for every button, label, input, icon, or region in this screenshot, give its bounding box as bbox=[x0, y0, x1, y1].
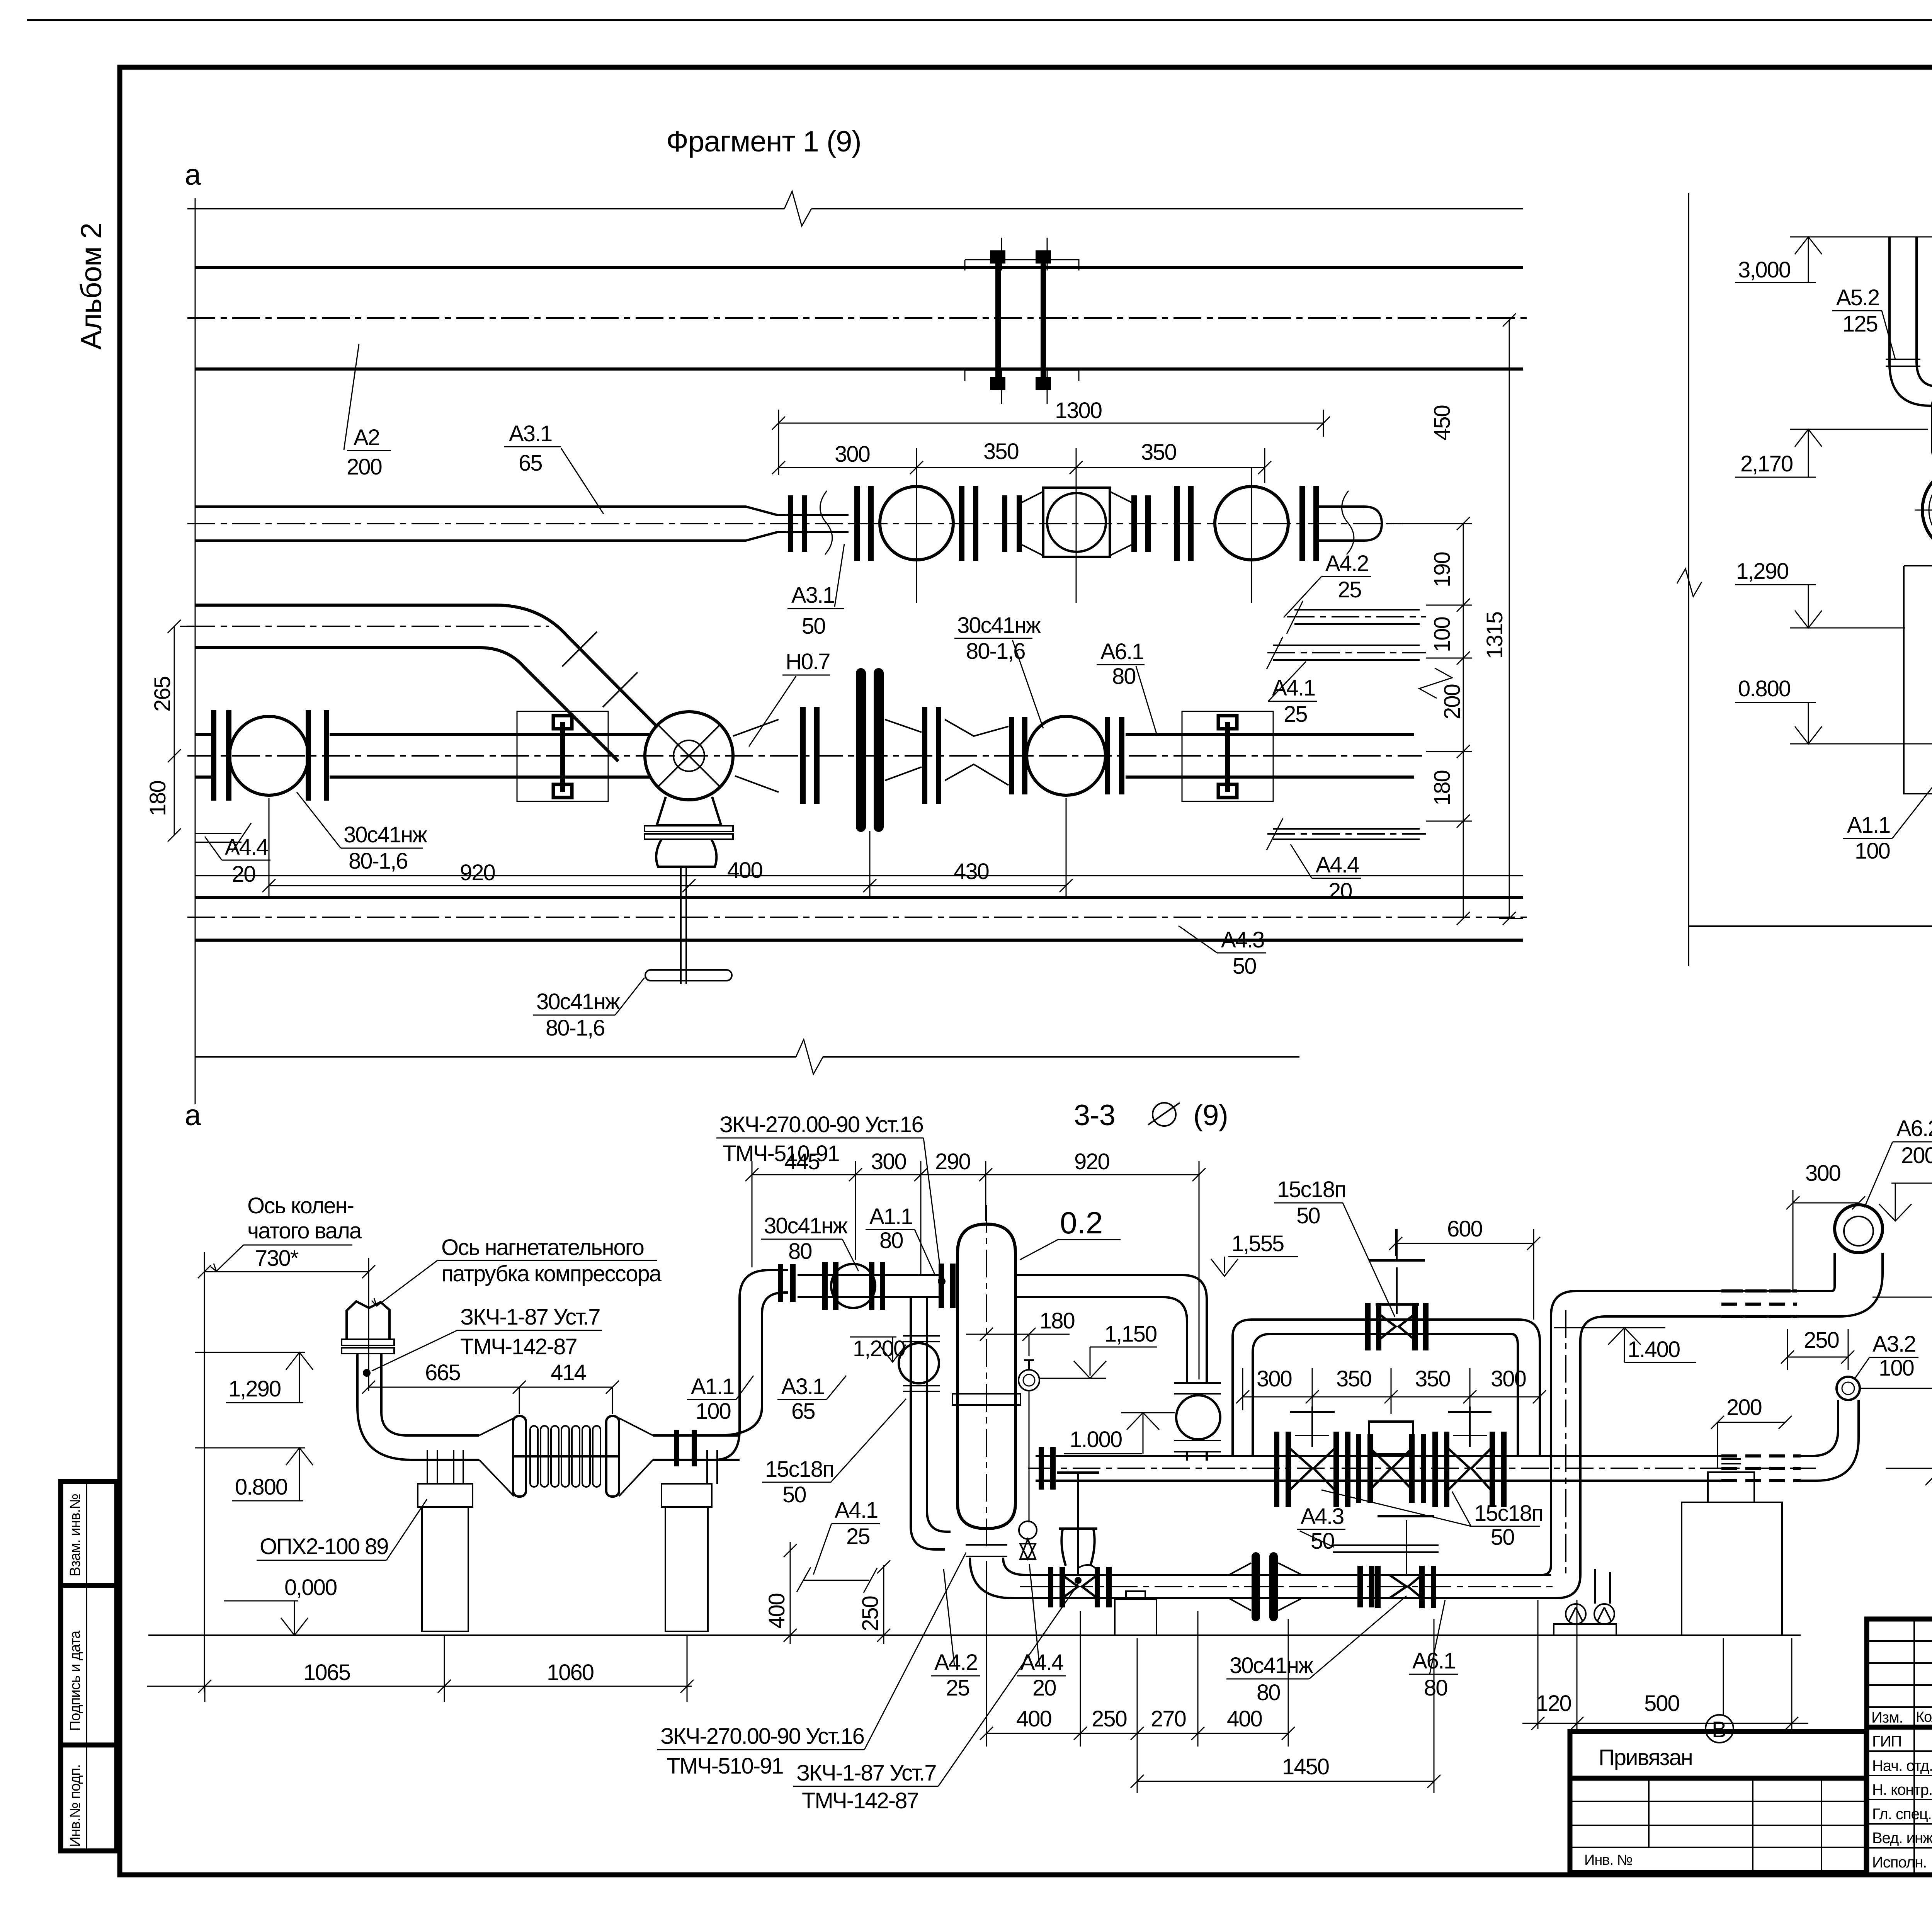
label A6.1/80 bbox=[1097, 639, 1157, 736]
bellows corrugations bbox=[530, 1426, 600, 1487]
flange pair 4 bbox=[1177, 486, 1191, 561]
label 30s41nzh/80 bottom v3 bbox=[1226, 1596, 1406, 1705]
loop right elbow down bbox=[1511, 1320, 1540, 1456]
label A1.1/100 bbox=[1843, 746, 1932, 864]
dashed hidden crossing top bbox=[1727, 1291, 1793, 1316]
svg-text:200: 200 bbox=[1440, 684, 1465, 719]
svg-text:500: 500 bbox=[1644, 1691, 1679, 1716]
pipe A1.1 feed centerline bbox=[187, 626, 549, 627]
svg-text:ТМЧ-510-91: ТМЧ-510-91 bbox=[667, 1753, 783, 1779]
view3 section symbol bbox=[1148, 1103, 1180, 1126]
svg-text:665: 665 bbox=[425, 1360, 460, 1385]
label A5.2/125 bbox=[1832, 285, 1895, 359]
pipe A4.4 right bbox=[1267, 818, 1426, 850]
pipe to support bbox=[429, 1435, 479, 1460]
flange pair small bbox=[1012, 717, 1025, 794]
svg-text:0,000: 0,000 bbox=[284, 1575, 337, 1600]
stub pipe left bbox=[195, 735, 211, 777]
svg-text:А4.2: А4.2 bbox=[1325, 551, 1368, 576]
dim 200 pedestal bbox=[1711, 1416, 1792, 1468]
cone bbox=[885, 719, 922, 781]
sheet top edge line bbox=[27, 19, 1932, 21]
svg-text:патрубка компрессора: патрубка компрессора bbox=[441, 1261, 662, 1286]
drain hook detail bbox=[1078, 1565, 1097, 1575]
gauge 2 with valve bbox=[1019, 1521, 1037, 1559]
svg-text:15с18п: 15с18п bbox=[1474, 1501, 1543, 1526]
svg-text:100: 100 bbox=[1879, 1355, 1914, 1381]
dim 1300 bbox=[772, 410, 1330, 475]
flange pair right of valve bbox=[308, 710, 327, 801]
svg-text:В: В bbox=[1712, 1717, 1726, 1742]
svg-text:Альбом 2: Альбом 2 bbox=[75, 223, 108, 350]
svg-text:А2: А2 bbox=[354, 425, 379, 450]
dim 665 414 bbox=[362, 1381, 619, 1414]
sidebar outer box bbox=[61, 1481, 117, 1851]
flange pair at vessel side bbox=[1041, 1447, 1053, 1490]
level 1,100 bbox=[1860, 1388, 1932, 1431]
cone to square valve bbox=[1022, 492, 1043, 556]
bottom bundle bottom wall bbox=[195, 939, 1523, 942]
riser with valve bbox=[1174, 1383, 1221, 1461]
svg-text:15с18п: 15с18п bbox=[765, 1457, 833, 1482]
valve bonnet bbox=[656, 839, 716, 867]
svg-text:0.800: 0.800 bbox=[235, 1475, 287, 1500]
dim 250 right bbox=[1781, 1329, 1854, 1370]
svg-text:А5.2: А5.2 bbox=[1836, 285, 1879, 310]
level 1,555 bbox=[1211, 1231, 1298, 1276]
A3.2 circle bbox=[1837, 1377, 1860, 1400]
A6.1 run bbox=[1028, 1575, 1551, 1598]
svg-text:265: 265 bbox=[150, 677, 175, 712]
flange pair left bbox=[214, 710, 229, 801]
ground line v3 bbox=[148, 1634, 1801, 1636]
svg-text:400: 400 bbox=[764, 1594, 789, 1629]
svg-text:А4.2: А4.2 bbox=[934, 1650, 977, 1675]
square valve circle bbox=[1047, 493, 1106, 552]
svg-text:80: 80 bbox=[879, 1228, 903, 1253]
svg-text:А4.1: А4.1 bbox=[835, 1498, 878, 1523]
svg-text:1,150: 1,150 bbox=[1104, 1321, 1156, 1347]
dim 265 bbox=[168, 620, 205, 842]
flange pair on A6.1 bbox=[1360, 1566, 1372, 1607]
loop top pipe bbox=[1252, 1320, 1519, 1334]
svg-text:А1.1: А1.1 bbox=[1847, 813, 1890, 838]
svg-text:ГИП: ГИП bbox=[1872, 1733, 1901, 1750]
privyazan grid rows bbox=[1570, 1801, 1866, 1825]
svg-text:А4.4: А4.4 bbox=[225, 835, 268, 860]
level 0,000 bbox=[224, 1575, 337, 1635]
header row line bbox=[1867, 1725, 1932, 1730]
label zkch-1-87 bottom bbox=[793, 1584, 1078, 1813]
svg-text:1,555: 1,555 bbox=[1231, 1231, 1284, 1256]
svg-text:А6.2: А6.2 bbox=[1896, 1116, 1932, 1141]
pipe A3.1 walls bbox=[195, 507, 849, 541]
tee ball joint bbox=[645, 712, 733, 800]
svg-text:А3.2: А3.2 bbox=[1872, 1332, 1915, 1357]
svg-text:0.2: 0.2 bbox=[1060, 1206, 1103, 1240]
svg-text:Вед. инж.: Вед. инж. bbox=[1872, 1830, 1932, 1847]
flange pair on pipe bbox=[677, 1430, 694, 1466]
flange pair bbox=[803, 707, 817, 804]
dim 300 350 350 bbox=[772, 448, 1271, 603]
valve stem bbox=[681, 867, 686, 984]
staff table verticals bbox=[1914, 1619, 1932, 1875]
level 1.800 bbox=[1879, 1165, 1932, 1221]
label A1.1/80 bbox=[866, 1204, 935, 1275]
label A4.3/50 bbox=[1179, 926, 1266, 979]
extension lines to 120 500 dim bbox=[1538, 1600, 1792, 1729]
bottom bundle thin bbox=[195, 875, 1523, 876]
dim 1450 bbox=[1131, 1619, 1440, 1793]
dim row 400 250 270 400 bbox=[980, 1561, 1295, 1793]
svg-text:1.000: 1.000 bbox=[1070, 1427, 1122, 1452]
privyazan bottom row line bbox=[1570, 1847, 1866, 1848]
nozzle flange slabs bbox=[342, 1339, 394, 1345]
svg-text:чатого вала: чатого вала bbox=[247, 1218, 362, 1243]
gauge 1 bbox=[1019, 1360, 1039, 1522]
svg-text:Привязан: Привязан bbox=[1599, 1745, 1692, 1770]
svg-text:350: 350 bbox=[1336, 1366, 1371, 1391]
regulator valve battery bbox=[1359, 1422, 1423, 1503]
svg-text:125: 125 bbox=[1842, 311, 1878, 337]
casing rect bbox=[1904, 566, 1932, 794]
label zkch-270 bottom bbox=[657, 1553, 966, 1779]
svg-text:Ось колен-: Ось колен- bbox=[247, 1193, 354, 1218]
right dim line 1315 bbox=[1499, 313, 1523, 925]
valve flanges bbox=[825, 1262, 883, 1310]
privyazan row1 divider bbox=[1570, 1776, 1866, 1781]
mid pipe centerline bbox=[1028, 1468, 1816, 1469]
lens compensator discs bbox=[861, 673, 879, 827]
main row centerline bbox=[187, 755, 1422, 757]
svg-text:430: 430 bbox=[954, 859, 989, 884]
svg-text:50: 50 bbox=[1491, 1525, 1514, 1550]
svg-text:100: 100 bbox=[1430, 617, 1455, 652]
svg-text:920: 920 bbox=[1074, 1149, 1109, 1174]
level 1,290 v3 bbox=[195, 1352, 313, 1403]
flange pair bbox=[1107, 717, 1122, 794]
svg-text:1300: 1300 bbox=[1055, 398, 1102, 423]
dim 300 top right bbox=[1786, 1190, 1865, 1293]
A6.1 elbow up to riser R2 bbox=[1528, 1565, 1580, 1598]
inlet flange pair to vessel bbox=[941, 1264, 953, 1308]
label OPH2-100 89 bbox=[257, 1499, 427, 1560]
svg-text:3,000: 3,000 bbox=[1738, 257, 1790, 282]
valve under tee flange slabs bbox=[645, 826, 733, 839]
svg-text:ТМЧ-142-87: ТМЧ-142-87 bbox=[802, 1788, 918, 1813]
level 1,290 view2 bbox=[1735, 559, 1905, 628]
level 1,200 bbox=[850, 1336, 906, 1362]
label 15s18p/50 top bbox=[1274, 1177, 1395, 1317]
sidebar mid divider bbox=[86, 1481, 87, 1851]
A6.1 centerline bbox=[1020, 1586, 1557, 1587]
level 0,745 bbox=[1886, 1468, 1932, 1512]
dim 920 400 430 bbox=[262, 798, 1073, 896]
label A4.2/25 bbox=[1284, 551, 1371, 617]
level 1,150 bbox=[1039, 1321, 1157, 1378]
svg-text:20: 20 bbox=[232, 862, 255, 887]
dim 730 bbox=[198, 1265, 375, 1278]
riser R2 bbox=[1551, 1291, 1609, 1575]
bolt dot on pipe bbox=[363, 1369, 371, 1377]
svg-text:ТМЧ-142-87: ТМЧ-142-87 bbox=[460, 1334, 577, 1359]
svg-text:3-3: 3-3 bbox=[1074, 1099, 1115, 1132]
level 2,170 bbox=[1735, 429, 1928, 477]
tall pedestal bbox=[1682, 1459, 1782, 1635]
riser A5.2 bbox=[1889, 237, 1932, 406]
pipe A4.1 right bbox=[1267, 637, 1426, 669]
loop left riser bbox=[1233, 1320, 1271, 1456]
label 15s18p/50 battery bbox=[1321, 1490, 1543, 1550]
svg-text:А4.1: А4.1 bbox=[1272, 675, 1315, 701]
break mark bottom bbox=[796, 1039, 823, 1074]
svg-text:400: 400 bbox=[1016, 1706, 1051, 1731]
pipe support 2 bbox=[1182, 711, 1273, 801]
svg-text:А4.4: А4.4 bbox=[1316, 852, 1359, 878]
svg-text:ЗКЧ-1-87 Уст.7: ЗКЧ-1-87 Уст.7 bbox=[460, 1304, 600, 1330]
circular flange face bbox=[1922, 466, 1932, 554]
bellows right cone bbox=[619, 1418, 653, 1496]
riser A5.2 flange tick bbox=[1886, 359, 1920, 366]
ball valve 2 A3.1 bbox=[1215, 486, 1288, 560]
label A6.1/80 bottom bbox=[1409, 1600, 1458, 1701]
vessel 0.2 capsule bbox=[957, 1224, 1015, 1529]
A4.4 left break bbox=[232, 823, 251, 852]
mid pipe dashed hidden right bbox=[1721, 1456, 1801, 1481]
svg-text:ЗКЧ-270.00-90 Уст.16: ЗКЧ-270.00-90 Уст.16 bbox=[660, 1724, 864, 1749]
svg-text:80: 80 bbox=[1424, 1675, 1447, 1701]
label A4.1/25 v3 bbox=[813, 1498, 880, 1575]
privyazan grid verticals bbox=[1649, 1778, 1821, 1872]
svg-text:25: 25 bbox=[1338, 577, 1361, 602]
reducer cones bbox=[945, 719, 1009, 785]
svg-text:1,290: 1,290 bbox=[1736, 559, 1788, 584]
svg-text:А4.3: А4.3 bbox=[1301, 1504, 1344, 1529]
pipe A4.2 right bbox=[1287, 601, 1426, 634]
svg-text:А6.1: А6.1 bbox=[1100, 639, 1143, 664]
svg-text:250: 250 bbox=[1804, 1328, 1839, 1353]
title block bbox=[1867, 1619, 1932, 1878]
svg-text:a: a bbox=[185, 1099, 201, 1132]
svg-text:25: 25 bbox=[1284, 702, 1307, 727]
support clamp plates bbox=[427, 1450, 463, 1484]
A3.2 elbow up bbox=[1812, 1400, 1859, 1481]
svg-text:Взам. инв.№: Взам. инв.№ bbox=[67, 1494, 83, 1577]
pedestal right with rollers bbox=[1554, 1604, 1616, 1635]
label 30s41nzh/80 v3 bbox=[761, 1213, 859, 1271]
svg-text:Фрагмент 1 (9): Фрагмент 1 (9) bbox=[666, 125, 861, 158]
svg-text:65: 65 bbox=[519, 451, 542, 476]
riser R2 centerline bbox=[1565, 1310, 1566, 1577]
svg-text:А4.4: А4.4 bbox=[1020, 1650, 1063, 1675]
flange pair 5 bbox=[1302, 486, 1316, 561]
svg-text:ЗКЧ-1-87 Уст.7: ЗКЧ-1-87 Уст.7 bbox=[796, 1760, 936, 1786]
svg-text:80: 80 bbox=[788, 1239, 812, 1264]
dim row 445 300 290 920 bbox=[745, 1161, 1206, 1379]
battery dim 300 350 350 300 bbox=[1236, 1368, 1546, 1414]
svg-text:А1.1: А1.1 bbox=[869, 1204, 912, 1229]
svg-text:50: 50 bbox=[1233, 954, 1256, 979]
svg-text:Инв.№ подп.: Инв.№ подп. bbox=[67, 1764, 83, 1847]
svg-text:Изм.: Изм. bbox=[1871, 1709, 1903, 1726]
ground line 4-4 bbox=[1689, 925, 1932, 927]
label A4.4/20 left bbox=[205, 835, 270, 887]
svg-text:414: 414 bbox=[551, 1360, 586, 1385]
svg-text:300: 300 bbox=[1491, 1366, 1526, 1391]
svg-text:50: 50 bbox=[802, 614, 825, 639]
vessel bottom flange bbox=[966, 1545, 1007, 1556]
svg-text:25: 25 bbox=[846, 1524, 870, 1549]
label A1.1/100 v3 bbox=[687, 1374, 753, 1424]
crankshaft axis line bbox=[204, 1252, 205, 1692]
label A6.2/200 bbox=[1864, 1116, 1932, 1207]
label 30s41nzh 80-1.6 top bbox=[954, 613, 1043, 728]
svg-text:300: 300 bbox=[1257, 1366, 1292, 1391]
left sidebar block bbox=[61, 1481, 117, 1851]
svg-text:20: 20 bbox=[1328, 879, 1352, 904]
svg-text:А3.1: А3.1 bbox=[509, 421, 552, 446]
svg-text:80-1,6: 80-1,6 bbox=[349, 849, 407, 874]
svg-text:120: 120 bbox=[1536, 1691, 1571, 1716]
flange bars after elbow bbox=[781, 1264, 793, 1302]
left boundary break bbox=[1677, 569, 1702, 597]
svg-text:20: 20 bbox=[1032, 1675, 1056, 1701]
gate valve battery v1 bbox=[1277, 1406, 1348, 1507]
mid pipe battery run bbox=[1036, 1456, 1518, 1481]
svg-text:25: 25 bbox=[946, 1675, 969, 1701]
svg-text:15с18п: 15с18п bbox=[1277, 1177, 1345, 1202]
svg-text:ЗКЧ-270.00-90 Уст.16: ЗКЧ-270.00-90 Уст.16 bbox=[719, 1112, 923, 1137]
svg-text:Ось нагнетательного: Ось нагнетательного bbox=[441, 1235, 644, 1260]
svg-text:300: 300 bbox=[1805, 1161, 1840, 1186]
dim 120 500 bbox=[1522, 1717, 1808, 1730]
svg-text:30с41нж: 30с41нж bbox=[1230, 1653, 1313, 1678]
vertical dim 250 bbox=[877, 1560, 890, 1644]
svg-text:100: 100 bbox=[1855, 838, 1890, 864]
sidebar divider 2 bbox=[61, 1743, 117, 1748]
pipe A2 centerline bbox=[187, 317, 1530, 319]
pipe A4.4 left bbox=[196, 833, 241, 842]
gate valve on loop top bbox=[1368, 1229, 1426, 1350]
bottom bundle top wall bbox=[195, 896, 1523, 899]
svg-text:65: 65 bbox=[791, 1399, 815, 1424]
sidebar divider 1 bbox=[61, 1583, 117, 1588]
B circle marker bbox=[1706, 1715, 1733, 1743]
level line 3.000 bbox=[1790, 236, 1932, 238]
reducer bars bbox=[1005, 495, 1019, 552]
svg-text:80: 80 bbox=[1257, 1680, 1280, 1705]
bellows center rod bbox=[514, 1455, 618, 1458]
level 1.000 bbox=[1064, 1413, 1175, 1454]
svg-text:190: 190 bbox=[1430, 552, 1455, 587]
svg-text:270: 270 bbox=[1151, 1706, 1186, 1731]
break mark top bbox=[784, 191, 811, 226]
valve under tee body bbox=[657, 797, 721, 825]
break swirl right bbox=[1342, 491, 1354, 554]
valve handle bbox=[645, 970, 732, 981]
lens compensator on A6.1 bbox=[1229, 1556, 1302, 1617]
svg-text:180: 180 bbox=[1039, 1308, 1075, 1333]
discharge pipe down and elbow bbox=[357, 1354, 429, 1460]
vessel band bbox=[952, 1394, 1020, 1405]
svg-text:300: 300 bbox=[835, 442, 870, 467]
svg-text:(9): (9) bbox=[1193, 1099, 1228, 1132]
break swirl bbox=[820, 491, 832, 554]
compressor nozzle stub bbox=[347, 1301, 389, 1339]
svg-text:1,200: 1,200 bbox=[853, 1336, 905, 1361]
svg-text:1060: 1060 bbox=[547, 1660, 594, 1685]
branch ball valve bbox=[899, 1343, 939, 1383]
staff empty row lines bbox=[1867, 1641, 1932, 1707]
wall line top thin bbox=[187, 208, 1523, 209]
svg-text:1.400: 1.400 bbox=[1628, 1337, 1680, 1362]
svg-text:А4.3: А4.3 bbox=[1221, 927, 1264, 952]
svg-text:250: 250 bbox=[858, 1596, 883, 1631]
label A4.4/20 right bbox=[1291, 844, 1361, 904]
right dim line 1 bbox=[1387, 517, 1472, 925]
svg-text:300: 300 bbox=[871, 1149, 906, 1174]
left boundary line bbox=[1688, 193, 1689, 966]
svg-text:30с41нж: 30с41нж bbox=[764, 1213, 848, 1238]
svg-text:ОПХ2-100 89: ОПХ2-100 89 bbox=[260, 1534, 388, 1559]
square valve body bbox=[1043, 488, 1110, 557]
svg-text:920: 920 bbox=[460, 860, 495, 885]
pipe support 1 bbox=[517, 711, 608, 801]
svg-text:30с41нж: 30с41нж bbox=[957, 613, 1041, 638]
svg-text:180: 180 bbox=[1430, 770, 1455, 806]
riser A1.1 up with elbows bbox=[715, 1270, 788, 1460]
label A3.1/50 bbox=[787, 544, 844, 639]
staff row lines bbox=[1867, 1751, 1932, 1848]
flange pair 3 bbox=[962, 486, 976, 561]
svg-text:400: 400 bbox=[727, 858, 762, 883]
ball valve right bbox=[1027, 716, 1105, 795]
svg-text:80-1,6: 80-1,6 bbox=[546, 1015, 604, 1041]
mid pipe solid to A3.2 elbow bbox=[1518, 1456, 1816, 1481]
svg-text:600: 600 bbox=[1447, 1216, 1482, 1242]
pipe A2 top wall bbox=[195, 266, 1523, 269]
pipe A2 bottom wall bbox=[195, 367, 1523, 371]
gate valve on A6.1 bbox=[1051, 1473, 1109, 1607]
privyazan outer bbox=[1570, 1731, 1866, 1872]
svg-text:Инв. №: Инв. № bbox=[1584, 1852, 1632, 1868]
vertical dim 400 bbox=[784, 1542, 797, 1644]
label A4.3/50 battery bbox=[1297, 1504, 1345, 1554]
svg-text:200: 200 bbox=[347, 454, 382, 480]
svg-text:30с41нж: 30с41нж bbox=[344, 822, 427, 847]
pipe A3.1 centerline bbox=[187, 523, 1403, 524]
label A3.2/100 bbox=[1855, 1332, 1918, 1381]
svg-text:ТМЧ-510-91: ТМЧ-510-91 bbox=[723, 1141, 839, 1166]
elbow hatch marks bbox=[562, 632, 638, 707]
svg-text:1315: 1315 bbox=[1482, 612, 1507, 659]
label 15s18p/50 left bbox=[762, 1399, 906, 1507]
flange pair 2 bbox=[857, 486, 871, 561]
svg-text:350: 350 bbox=[1141, 440, 1176, 465]
svg-text:350: 350 bbox=[1415, 1366, 1450, 1391]
label 30s41nzh bottom left bbox=[297, 792, 427, 874]
svg-text:50: 50 bbox=[1296, 1203, 1320, 1228]
bellows left cone bbox=[479, 1418, 514, 1496]
vessel outlet elbow to A6.1 bbox=[970, 1558, 1028, 1598]
svg-text:2,170: 2,170 bbox=[1740, 451, 1793, 476]
svg-text:Подпись и дата: Подпись и дата bbox=[67, 1630, 83, 1731]
zkch-270 label top bbox=[716, 1112, 942, 1280]
A4.1 stub pipe with breaks bbox=[804, 1580, 869, 1581]
pipe from vessel to riser elbow bbox=[1015, 1275, 1207, 1383]
elbow up to A6.2 circle bbox=[1832, 1253, 1883, 1316]
svg-text:250: 250 bbox=[1092, 1706, 1127, 1731]
